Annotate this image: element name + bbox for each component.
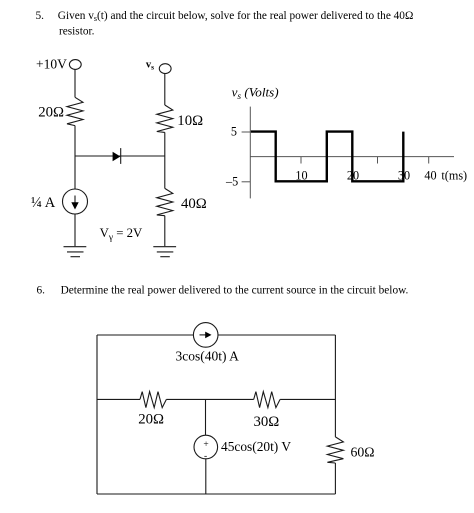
svg-text:10: 10 (295, 168, 307, 182)
svg-text:20: 20 (347, 168, 359, 182)
svg-text:–5: –5 (225, 175, 238, 189)
svg-text:6.: 6. (37, 285, 46, 297)
svg-text:+: + (203, 440, 208, 450)
svg-text:10Ω: 10Ω (177, 113, 203, 129)
svg-text:40Ω: 40Ω (181, 196, 207, 212)
svg-text:-: - (204, 451, 207, 461)
svg-text:20Ω: 20Ω (38, 105, 64, 121)
svg-text:Determine the real power deliv: Determine the real power delivered to th… (61, 285, 409, 297)
svg-text:5.: 5. (36, 10, 45, 22)
svg-text:3cos(40t) A: 3cos(40t) A (176, 349, 240, 364)
svg-text:t(ms): t(ms) (441, 168, 467, 182)
svg-text:Given vs(t) and the circuit be: Given vs(t) and the circuit below, solve… (58, 10, 414, 23)
svg-text:5: 5 (231, 125, 237, 139)
svg-text:30Ω: 30Ω (254, 414, 280, 430)
svg-text:resistor.: resistor. (59, 26, 95, 38)
svg-text:+10V: +10V (36, 57, 67, 72)
svg-text:30: 30 (398, 168, 410, 182)
svg-text:40: 40 (424, 168, 436, 182)
svg-text:¼ A: ¼ A (31, 195, 56, 211)
svg-text:20Ω: 20Ω (138, 412, 164, 428)
svg-text:60Ω: 60Ω (351, 445, 375, 460)
svg-text:45cos(20t) V: 45cos(20t) V (221, 439, 291, 454)
